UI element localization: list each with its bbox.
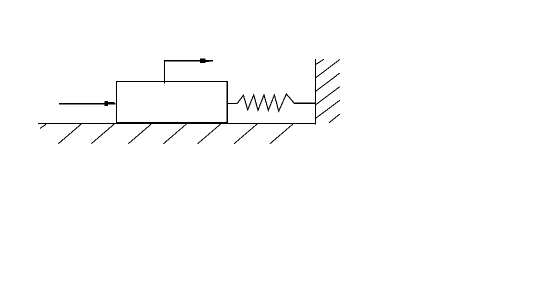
spring k — [227, 94, 315, 111]
ground hatch 8 — [270, 124, 293, 144]
mass block M — [116, 82, 227, 123]
wall line — [314, 59, 316, 124]
velocity arrow riser from mass top — [164, 61, 213, 84]
wall hatch 5 — [315, 100, 340, 118]
velocity arrow head — [200, 58, 210, 63]
wall hatch 1 — [315, 59, 323, 64]
ground hatch 5 — [164, 124, 187, 144]
ground hatch 4 — [128, 124, 151, 144]
wall hatch 6 — [329, 114, 340, 123]
applied force arrow F head — [105, 101, 115, 106]
wall hatch 3 — [315, 73, 340, 92]
ground hatch 2 — [58, 124, 81, 144]
ground line — [38, 123, 316, 125]
ground hatch 7 — [234, 124, 257, 144]
ground hatch stub 1 — [40, 124, 46, 128]
ground hatch 3 — [91, 124, 114, 144]
wall hatch 2 — [315, 59, 340, 78]
wall hatch 4 — [315, 87, 340, 105]
ground hatch 6 — [198, 124, 221, 144]
applied force arrow F shaft — [59, 103, 116, 105]
